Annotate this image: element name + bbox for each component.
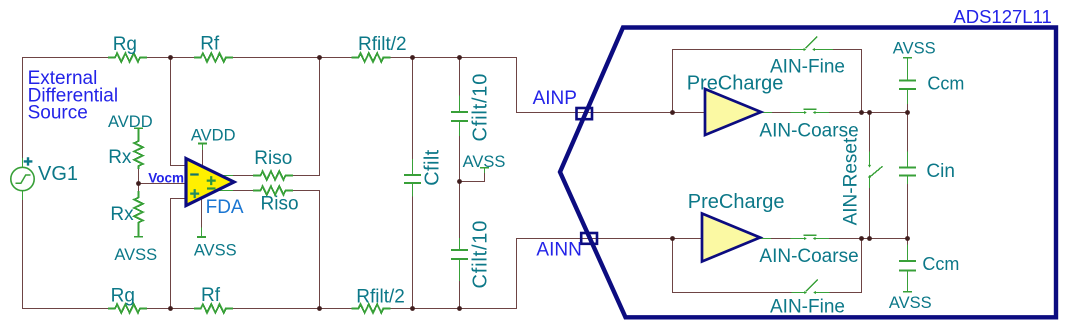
switch AIN-Fine bottom contacts <box>791 292 829 294</box>
power rail bar AVSS above Ccm top <box>903 57 912 59</box>
svg-text:AVDD: AVDD <box>108 113 153 131</box>
FDA output bottom stub <box>218 190 234 192</box>
svg-text:AVSS: AVSS <box>889 294 932 312</box>
svg-text:Rf: Rf <box>201 285 221 306</box>
capacitor Cin leads <box>907 152 909 184</box>
power rail bar AVSS below Rx <box>134 236 143 238</box>
wire AIN-Fine top loop right <box>833 50 861 113</box>
switch AIN-Coarse top contacts <box>761 112 829 114</box>
svg-text:AIN-Fine: AIN-Fine <box>770 296 845 317</box>
svg-text:Riso: Riso <box>261 194 299 215</box>
svg-text:Source: Source <box>28 102 88 123</box>
node top rail at Cfilt10 <box>457 55 462 60</box>
op-amp FDA output plus mark <box>207 176 216 185</box>
svg-text:AIN-Fine: AIN-Fine <box>770 56 845 77</box>
wire AIN-Reset column lower <box>869 188 871 239</box>
svg-text:Cfilt/10: Cfilt/10 <box>470 220 492 289</box>
power rail bar AVDD at FDA <box>198 143 207 145</box>
resistor Rfilt/2 bottom zigzag <box>351 304 390 313</box>
resistor Rx top vertical zigzag <box>134 128 143 169</box>
wire bottom Riso row FDA to resistor <box>233 190 253 192</box>
FDA AVSS stub <box>201 228 203 237</box>
svg-text:Cin: Cin <box>926 161 955 182</box>
node top rail at Rg-Rf junction <box>168 55 173 60</box>
svg-text:AIN-Reset: AIN-Reset <box>841 137 862 225</box>
svg-text:Riso: Riso <box>254 148 292 169</box>
capacitor Ccm top plates <box>899 80 916 89</box>
switch AIN-Reset lever <box>870 166 882 176</box>
wire Cfilt column upper <box>412 58 414 159</box>
svg-text:Rfilt/2: Rfilt/2 <box>356 287 405 308</box>
capacitor Ccm bottom plates <box>899 261 916 270</box>
FDA output top stub <box>220 175 234 177</box>
svg-text:VG1: VG1 <box>38 163 78 185</box>
wire Ccm bottom lead <box>907 239 909 245</box>
capacitor Cfilt10 bottom leads <box>459 238 461 281</box>
svg-text:Rx: Rx <box>110 204 134 225</box>
wire VG1 top stub <box>22 158 24 167</box>
resistor Rg bottom zigzag <box>108 304 147 313</box>
op-amp FDA triangle <box>186 159 234 206</box>
wire VG1 bottom stub <box>22 191 24 200</box>
voltage source VG1 plus sign <box>24 157 33 165</box>
wire Vocm node to FDA <box>139 183 187 185</box>
node AINN at fine loop right <box>859 236 864 241</box>
capacitor Cin plates <box>899 168 916 176</box>
svg-text:FDA: FDA <box>206 197 244 218</box>
wire Cfilt column lower <box>412 196 414 308</box>
port AINN square <box>581 233 597 244</box>
svg-text:AIN-Coarse: AIN-Coarse <box>759 246 858 267</box>
wire Cin lower lead <box>907 184 909 239</box>
svg-text:Rg: Rg <box>113 34 137 55</box>
svg-text:Cfilt/10: Cfilt/10 <box>470 73 492 142</box>
svg-text:PreCharge: PreCharge <box>687 72 784 94</box>
wire FDA inverting input from top junction <box>171 58 187 166</box>
node bottom rail at Riso feedback <box>317 306 322 311</box>
wire Cfilt10 column upper <box>459 58 461 96</box>
capacitor Cfilt10 bottom plates <box>451 250 468 259</box>
svg-text:ADS127L11: ADS127L11 <box>953 6 1051 27</box>
wire Cfilt10 column lower <box>459 281 461 309</box>
svg-text:AVSS: AVSS <box>463 153 506 171</box>
wire left rail lower below VG1 <box>23 200 109 309</box>
node AINP at fine loop right <box>859 110 864 115</box>
wire Cin upper lead <box>907 113 909 152</box>
wire FDA AVSS pin <box>201 197 203 228</box>
node AINP at fine loop left <box>670 110 675 115</box>
svg-text:PreCharge: PreCharge <box>688 191 785 213</box>
wire AINP row amp input <box>673 112 706 114</box>
wire bottom rail Rf to Rfilt/2 <box>233 308 352 310</box>
svg-text:AVSS: AVSS <box>114 246 157 264</box>
node AINN at fine loop left <box>670 236 675 241</box>
wire top rail left + left rail upper <box>23 58 109 159</box>
node Vocm <box>136 181 141 186</box>
switch AIN-Coarse top bar <box>804 108 817 110</box>
svg-text:AVSS: AVSS <box>893 40 936 58</box>
op-amp FDA output minus mark <box>207 187 216 189</box>
voltage source VG1 circle <box>11 167 34 190</box>
svg-text:AVSS: AVSS <box>194 242 237 260</box>
wire bottom rail Rfilt/2 to AINN corner and into chip <box>390 239 672 309</box>
node top rail at Riso feedback <box>317 55 322 60</box>
wire AIN-Reset column upper <box>869 113 871 152</box>
wire AINN row amp output to coarse switch <box>771 238 791 240</box>
switch AIN-Coarse top contact arrows <box>804 111 815 114</box>
switch AIN-Fine top lever <box>806 37 818 49</box>
wire AIN-Fine top loop left and top <box>673 50 791 113</box>
svg-text:AVDD: AVDD <box>191 127 236 145</box>
svg-text:Ccm: Ccm <box>922 254 959 274</box>
port AINP square <box>577 108 593 119</box>
switch AIN-Fine top contacts <box>791 49 834 51</box>
switch AIN-Coarse bottom bar <box>804 234 817 236</box>
svg-text:Ccm: Ccm <box>927 74 964 94</box>
power rail bar AVSS below FDA <box>197 236 206 238</box>
switch AIN-Coarse bottom contacts <box>760 238 829 240</box>
wire top Riso to top rail feedback <box>293 58 320 176</box>
power rail bar AVSS below Ccm bottom <box>903 291 912 293</box>
node AINP at reset column <box>867 110 872 115</box>
switch AIN-Reset contacts <box>869 152 871 189</box>
svg-text:Rfilt/2: Rfilt/2 <box>358 34 407 55</box>
wire Rx divider mid segments <box>138 169 140 191</box>
switch AIN-Reset contact arrows <box>868 165 871 178</box>
wire bottom Riso to bottom rail feedback <box>293 191 320 309</box>
capacitor Cfilt plates <box>404 175 421 183</box>
wire Cfilt10 column middle <box>459 136 461 238</box>
node bottom rail at Cfilt <box>410 306 415 311</box>
power rail bar AVDD at Rx <box>134 127 143 129</box>
svg-text:Rx: Rx <box>108 147 132 168</box>
wire Ccm top lead <box>907 104 909 112</box>
FDA AVDD stub <box>202 144 204 151</box>
node AINN at Ccm column <box>905 236 910 241</box>
power rail bar AVSS at Cfilt10 <box>480 167 489 169</box>
node bottom rail at Rg-Rf junction <box>168 306 173 311</box>
node AINP at Ccm column <box>905 110 910 115</box>
resistor Riso bottom zigzag <box>253 186 293 195</box>
wire bottom rail between Rg and Rf <box>147 308 194 310</box>
switch AIN-Fine top contact arrows <box>804 48 815 51</box>
wire AINN row amp input <box>673 238 703 240</box>
wire top rail Rf to Rfilt/2 <box>233 57 352 59</box>
wire FDA AVDD pin <box>202 150 204 165</box>
svg-text:Cfilt: Cfilt <box>421 149 443 185</box>
IC ADS127L11 outline <box>560 28 1056 318</box>
buffer PreCharge top triangle <box>705 89 761 135</box>
svg-text:Rg: Rg <box>111 286 135 307</box>
switch AIN-Coarse bottom contact arrows <box>804 237 815 240</box>
op-amp FDA non-inverting input mark <box>190 189 199 198</box>
node bottom rail at Cfilt10 <box>457 306 462 311</box>
capacitor Cfilt10 top plates <box>451 112 468 121</box>
wire top rail between Rg and Rf <box>147 57 194 59</box>
node AINN at reset column <box>867 236 872 241</box>
AVSS stub green tick at Cfilt10 <box>484 168 486 173</box>
capacitor Cfilt leads <box>412 159 414 197</box>
resistor Rx bottom vertical zigzag <box>134 191 143 237</box>
voltage source VG1 waveform glyph <box>16 175 31 183</box>
wire top Riso row FDA to resistor <box>233 175 253 177</box>
wire AIN-Fine bottom loop right <box>830 239 862 293</box>
resistor Rf bottom zigzag <box>194 304 233 313</box>
svg-text:Vocm: Vocm <box>148 171 184 186</box>
capacitor Ccm top leads <box>907 58 909 104</box>
capacitor Ccm bottom leads <box>907 245 909 292</box>
svg-text:Rf: Rf <box>200 34 220 55</box>
resistor Riso top zigzag <box>253 171 293 180</box>
svg-text:AINP: AINP <box>533 88 577 109</box>
buffer PreCharge bottom triangle <box>702 214 760 262</box>
wire top rail Rfilt/2 to AINP corner and into chip <box>390 58 672 113</box>
wire AVSS stub at Cfilt10 midpoint <box>460 173 485 182</box>
node top rail at Cfilt <box>410 55 415 60</box>
op-amp FDA inverting input mark <box>190 173 199 175</box>
wire AINP row coarse switch to Ccm node <box>829 112 907 114</box>
resistor Rf top zigzag <box>194 53 233 62</box>
wire AINN row coarse switch to Ccm node <box>829 238 907 240</box>
switch AIN-Fine bottom lever <box>806 280 818 292</box>
wire AIN-Fine bottom loop left and bottom <box>673 239 792 293</box>
svg-text:AINN: AINN <box>536 240 581 261</box>
node Cfilt10 midpoint <box>457 179 462 184</box>
wire FDA non-inverting input from bottom junction <box>171 199 187 309</box>
resistor Rfilt/2 top zigzag <box>351 53 390 62</box>
wire AINP row amp output to coarse switch <box>772 112 791 114</box>
resistor Rg top zigzag <box>108 53 147 62</box>
switch AIN-Fine bottom contact arrows <box>804 291 816 294</box>
capacitor Cfilt10 top leads <box>459 95 461 135</box>
